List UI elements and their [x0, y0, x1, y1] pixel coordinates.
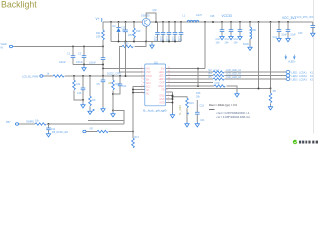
svg-text:• Iw = 0.035*4096/20.4096 mA: • Iw = 0.035*4096/20.4096 mA	[216, 116, 250, 119]
ground under gnd bus	[150, 42, 154, 49]
wire x169 drop	[168, 22, 170, 42]
capacitor C33 right edge	[298, 22, 315, 35]
IC U2 left pin labels	[146, 68, 152, 95]
pin circle LED2	[286, 74, 313, 78]
node x258.5 y89.5	[258, 88, 260, 90]
svg-text:C5: C5	[97, 83, 101, 86]
capacitor C12	[234, 30, 243, 45]
wire x163 drop	[162, 22, 164, 42]
svg-text:1: 1	[141, 67, 142, 69]
pin circle LED3	[286, 77, 313, 81]
node x198 y68.5	[197, 68, 199, 70]
svg-text:C1: C1	[67, 53, 71, 56]
ground x250	[248, 46, 252, 51]
wire RSET row y86	[166, 86, 237, 92]
svg-text:C33: C33	[298, 32, 303, 35]
resistor R17 below rowE	[132, 132, 140, 148]
svg-text:VCC_RTC_3V3: VCC_RTC_3V3	[297, 16, 315, 19]
svg-text:10R: 10R	[96, 36, 101, 39]
svg-text:2: 2	[141, 71, 142, 73]
svg-text:104: 104	[234, 42, 239, 45]
ground x197.3	[195, 122, 199, 127]
capacitor C16 x83	[77, 76, 85, 100]
wire x134 drop	[133, 22, 135, 42]
wire vertical x125.5 gnd bus to pwm row	[125, 42, 127, 77]
node rail x240	[239, 21, 241, 23]
svg-text:100uF: 100uF	[76, 61, 83, 64]
resistor R10 x113	[112, 76, 121, 111]
label Q2	[141, 8, 157, 17]
node gnd bus x125.5	[125, 41, 127, 43]
svg-text:104: 104	[225, 42, 230, 45]
svg-text:SDA: SDA	[146, 82, 151, 85]
wire Q2 emitter down	[145, 26, 147, 41]
svg-text:R9: R9	[92, 99, 96, 102]
node x172.5 y95.5	[172, 95, 174, 97]
svg-text:NC: NC	[146, 93, 150, 95]
wire long vertical x258.5	[258, 22, 260, 89]
ground x172.5	[170, 113, 174, 118]
node x172.5 y99	[172, 98, 174, 100]
svg-text:GND: GND	[159, 95, 164, 97]
wire x222 drop	[221, 22, 223, 35]
ferrite FB1 vertical x250	[243, 22, 257, 46]
node rail x270.5	[270, 21, 272, 23]
wire x279 drop	[278, 22, 280, 37]
wire rowD y124	[19, 123, 124, 125]
node x198 y86	[197, 85, 199, 87]
svg-text:PWM: PWM	[146, 76, 152, 78]
node rail x156	[155, 21, 157, 23]
svg-text:FB1: FB1	[252, 29, 257, 32]
svg-text:BL_GND: BL_GND	[179, 105, 182, 115]
node rail x205	[204, 21, 206, 23]
node rail x169	[168, 21, 170, 23]
svg-text:LED3: LED3	[292, 78, 299, 81]
svg-text:VSP: VSP	[146, 72, 151, 74]
capacitor x175	[172, 32, 177, 42]
node rail x279	[278, 21, 280, 23]
note dash	[209, 109, 215, 111]
wire OVP stub y82.5	[166, 82, 213, 84]
diode D2 TVS	[113, 25, 126, 33]
logo text blocks	[299, 141, 318, 144]
node pwm x120	[119, 75, 121, 77]
svg-text:LCDA3: LCDA3	[299, 78, 307, 81]
node gnd bus x118.5	[118, 41, 120, 43]
wire rowE y131.5	[86, 131, 133, 133]
svg-text:C15: C15	[121, 27, 126, 30]
svg-text:LCD_LED_A3: LCD_LED_A3	[226, 76, 242, 79]
wire LED2 row y75.5	[166, 75, 286, 77]
svg-text:R8_DCDC_EN: R8_DCDC_EN	[52, 131, 68, 134]
capacitor C18	[46, 124, 55, 132]
resistor R21 x103	[96, 30, 104, 40]
node rail x163	[162, 21, 164, 23]
svg-text:SS8550: SS8550	[141, 14, 150, 17]
ground x231	[229, 35, 233, 40]
pin circle LED1	[286, 70, 313, 74]
svg-text:vbl: vbl	[108, 82, 112, 85]
svg-text:VCC_3V3: VCC_3V3	[282, 16, 296, 20]
node pwm x74	[73, 75, 75, 77]
node x103 y68.5	[102, 68, 104, 70]
ground x240	[238, 35, 242, 40]
capacitor C14	[286, 30, 297, 37]
svg-text:V+: V+	[96, 17, 100, 21]
IC U2 pin ticks and numbers	[141, 67, 170, 103]
svg-text:Rset = 20kΩ (typ) = 0.6: Rset = 20kΩ (typ) = 0.6	[209, 103, 237, 107]
wire x125.5 drop	[125, 22, 127, 42]
net arrows top right	[285, 55, 297, 64]
connector P_EN	[52, 128, 93, 135]
svg-text:OVP: OVP	[215, 82, 220, 85]
connector P_PWM	[22, 73, 50, 79]
svg-text:R15: R15	[189, 102, 194, 105]
svg-text:C38: C38	[210, 15, 215, 18]
svg-text:OVP: OVP	[160, 82, 165, 84]
resistor R8 rowE	[97, 130, 108, 132]
wire x103 to pwm row	[102, 69, 104, 77]
wire main top rail left segment	[103, 21, 142, 23]
node gnd bus x169	[168, 41, 170, 43]
wire x175 drop	[174, 22, 176, 42]
node rail x250	[249, 21, 251, 23]
node pwm x125.5	[125, 75, 127, 77]
node x172.5 y96.8	[172, 96, 174, 98]
ground x103	[101, 107, 105, 112]
node pwm x83	[82, 75, 84, 77]
svg-text:601R: 601R	[243, 43, 249, 46]
wire faint sub line y120.5	[88, 120, 124, 122]
node rail x125.5	[125, 21, 127, 23]
ground x237	[235, 92, 239, 97]
ground x113	[111, 111, 115, 118]
node gnd bus x163	[162, 41, 164, 43]
node pwm x90	[89, 75, 91, 77]
node x172.5 y102.5	[172, 102, 174, 104]
node pwm x113	[112, 75, 114, 77]
resistor R20 horizontal	[120, 42, 147, 48]
node rail x231	[230, 21, 232, 23]
node rail x258.5	[258, 21, 260, 23]
svg-text:LED2: LED2	[159, 75, 165, 77]
wire x118.5 drop	[118, 22, 120, 42]
ground right edge	[311, 32, 315, 37]
svg-text:5: 5	[141, 81, 142, 83]
ground under cluster	[82, 65, 86, 72]
wire vin vertical x103	[102, 22, 104, 47]
ground x187	[185, 122, 189, 127]
svg-text:Backlight: Backlight	[1, 0, 37, 10]
node gnd bus x134	[133, 41, 135, 43]
node x103 y46.5	[102, 46, 104, 48]
ground x48.5	[46, 132, 50, 137]
capacitor C13	[273, 30, 288, 39]
wire x84 drop	[83, 47, 85, 65]
svg-text:RSET: RSET	[158, 86, 165, 88]
wire IC right gnd pins merge x172.5	[166, 92, 173, 113]
ground x222	[220, 35, 224, 40]
node rail x222	[221, 21, 223, 23]
svg-text:EN: EN	[146, 79, 150, 81]
wire x240 drop	[239, 22, 241, 35]
capacitor C5 x103	[97, 76, 106, 107]
svg-text:105: 105	[128, 34, 133, 37]
svg-text:C2: C2	[78, 53, 82, 56]
ground x288	[286, 37, 290, 42]
svg-text:LED3: LED3	[159, 79, 165, 81]
svg-text:VIN: VIN	[146, 68, 150, 70]
sheet border right edge	[313, 0, 315, 134]
svg-text:1k: 1k	[47, 73, 50, 76]
ground x83	[81, 100, 85, 108]
svg-text:U2: U2	[154, 60, 158, 64]
wire LED3 row y79	[166, 78, 286, 80]
wire IC lower-left pins merge x133	[133, 87, 145, 132]
svg-text:K3: K3	[310, 78, 314, 81]
svg-text:20k: 20k	[196, 96, 201, 99]
IC U2 body	[145, 60, 166, 106]
node x270.5 y89.5	[270, 88, 272, 90]
wire x181 drop	[180, 22, 182, 42]
resistor R9 x90	[88, 76, 96, 115]
wire main top rail right segment	[150, 21, 297, 23]
node rail x111	[110, 21, 112, 23]
capacitor C10	[216, 30, 225, 45]
capacitor C3	[89, 58, 105, 65]
wire rowD link x124	[113, 111, 124, 125]
node x113 y110.5	[112, 110, 114, 112]
svg-text:C16: C16	[77, 92, 82, 95]
svg-text:104: 104	[200, 119, 205, 122]
svg-text:R20: R20	[124, 42, 129, 45]
wire cluster bottom y64.5	[73, 64, 103, 66]
svg-text:D2: D2	[113, 25, 117, 28]
svg-text:VLED+: VLED+	[288, 61, 296, 64]
capacitor C19 x197.3	[195, 100, 205, 122]
node x133 y89.5	[132, 89, 134, 91]
node pwm x103	[102, 75, 104, 77]
svg-text:6_lcd_plug6: 6_lcd_plug6	[143, 109, 167, 113]
node rowD x48.5	[48, 123, 50, 125]
wire x231 drop	[230, 22, 232, 35]
svg-text:NC: NC	[146, 90, 150, 92]
resistor R16 rowD	[35, 120, 46, 126]
wire rail extension right	[297, 16, 315, 22]
IC U2 right pin labels	[158, 68, 165, 104]
node rail x213	[212, 21, 214, 23]
svg-text:10k: 10k	[35, 120, 40, 123]
wire branch to R15	[173, 97, 188, 98]
wire IC right SW pin to x205	[166, 68, 205, 70]
node gnd bus x146	[145, 41, 147, 43]
wire x73 drop	[72, 47, 74, 65]
node bottom x84	[83, 64, 85, 66]
resistor R14 RSET	[196, 85, 225, 99]
capacitor C1	[59, 53, 75, 65]
transistor Q2 circle	[141, 18, 150, 27]
node x103 y64.5	[102, 64, 104, 66]
svg-text:SCL: SCL	[146, 86, 151, 88]
wire VIN continue x103 down to IC pin1	[103, 65, 145, 69]
capacitor x157.5	[154, 32, 160, 42]
node rail x134	[133, 21, 135, 23]
resistor R13	[209, 76, 242, 80]
capacitor x181	[178, 32, 183, 42]
svg-text:FB: FB	[162, 89, 165, 91]
inductor L1 on rail	[183, 14, 202, 22]
svg-text:10uF: 10uF	[290, 34, 296, 37]
svg-text:GND: GND	[159, 102, 164, 104]
resistor R19 x134	[133, 28, 141, 38]
svg-text:PB7: PB7	[6, 121, 11, 124]
node blue x93	[93, 109, 95, 111]
wire x288 drop	[287, 22, 289, 37]
node gnd bus x175	[174, 41, 176, 43]
resistor R12	[209, 73, 242, 77]
node x83 y100	[82, 99, 84, 101]
svg-text:10k: 10k	[76, 83, 81, 86]
wire LED1 row y72	[166, 71, 286, 73]
resistor R11	[209, 69, 242, 73]
net flag V+ at rail start	[96, 17, 102, 22]
svg-text:104: 104	[122, 85, 127, 88]
svg-text:• Iled = 0.035*4096/20000 = A: • Iled = 0.035*4096/20000 = A	[216, 112, 250, 115]
svg-text:0R: 0R	[90, 128, 93, 131]
svg-text:LED1: LED1	[159, 72, 165, 74]
svg-text:10uH: 10uH	[196, 14, 202, 17]
node x133 y92.5	[132, 92, 134, 94]
svg-text:LCD_BL_PWM: LCD_BL_PWM	[22, 76, 38, 79]
wire x111 drop	[110, 22, 112, 42]
node x84	[83, 46, 85, 48]
svg-text:VCC33: VCC33	[222, 14, 233, 18]
capacitor x163	[160, 32, 165, 42]
wire collector loop over Q2	[146, 13, 156, 22]
wire x99 drop	[102, 47, 104, 65]
resistor R7 x74	[73, 76, 83, 100]
node rowE x133	[132, 131, 134, 133]
capacitor x169	[166, 32, 171, 42]
wire x198 vertical	[197, 69, 199, 87]
wire vertical x119.5 down to IC pin row y72	[120, 47, 145, 72]
svg-text:IN: IN	[1, 47, 4, 50]
svg-text:GND: GND	[159, 99, 164, 101]
node rail x181	[180, 21, 182, 23]
ground x279	[277, 37, 281, 42]
node rail x118.5	[118, 21, 120, 23]
node x73	[72, 46, 74, 48]
capacitor C17 x120	[113, 76, 127, 94]
resistor R6 on PWM row	[53, 75, 64, 77]
wire x157.5 drop	[157, 22, 159, 42]
connector P_VLED left	[1, 43, 15, 50]
wire PWM row y76	[45, 75, 145, 77]
resistor R18 below x270.5	[268, 89, 276, 111]
svg-text:R6: R6	[273, 90, 277, 93]
connector P_SWIRE	[6, 120, 34, 125]
svg-text:C19: C19	[200, 105, 205, 108]
resistor R15 x187	[186, 98, 195, 122]
wire VIN row y46.5	[14, 46, 103, 48]
wire FB row y89.5	[166, 88, 271, 90]
capacitor C2	[76, 53, 86, 65]
capacitor C11	[225, 30, 234, 45]
capacitor C15 x125.5	[121, 27, 132, 38]
svg-text:R17: R17	[135, 136, 140, 139]
svg-text:10uF: 10uF	[281, 34, 287, 37]
svg-text:4: 4	[141, 78, 142, 80]
svg-text:SWIRE: SWIRE	[26, 120, 34, 123]
svg-text:R19: R19	[136, 30, 141, 33]
wire gnd bus y41.5	[111, 41, 181, 43]
svg-text:L1: L1	[183, 15, 186, 18]
node x113 y94	[112, 93, 114, 95]
svg-text:104: 104	[216, 42, 221, 45]
node rail x288	[287, 21, 289, 23]
svg-text:100uF: 100uF	[59, 61, 66, 64]
svg-text:Q2: Q2	[153, 8, 157, 12]
logo green icon	[293, 140, 297, 144]
wire long vertical x205	[204, 22, 206, 69]
wire long vertical x270.5	[270, 22, 272, 89]
node rail x175	[174, 21, 176, 23]
